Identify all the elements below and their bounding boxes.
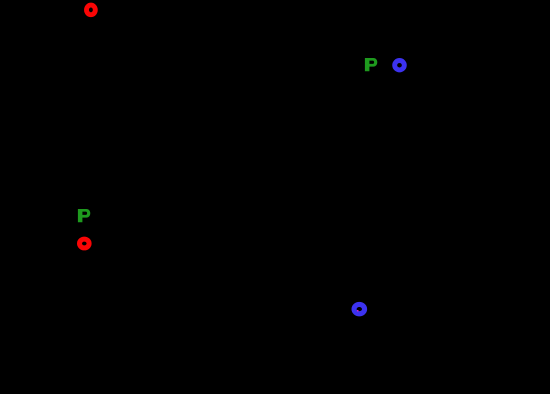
artifact pixel (magenta, inside bottom O) — [357, 310, 359, 312]
oxygen O (carbonyl, top left) — [87, 5, 96, 15]
oxygen O (right, phosphine oxide) — [395, 60, 405, 69]
phosphorus P (right, P=O group) — [365, 58, 377, 71]
oxygen O (left, phosphine oxide) — [80, 239, 90, 248]
phosphorus P (left, P=O group) — [78, 209, 90, 222]
oxygen O (ether, bottom) — [354, 304, 365, 313]
